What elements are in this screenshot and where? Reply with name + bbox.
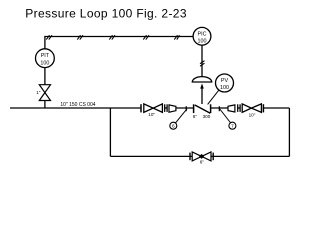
flange pair left bbox=[165, 104, 167, 112]
svg-text:10" 150 CS 004: 10" 150 CS 004 bbox=[60, 102, 95, 108]
instrument PV 100 bbox=[216, 74, 234, 92]
svg-text:PIC: PIC bbox=[198, 31, 207, 37]
pipe spool control valve to expander bbox=[211, 107, 228, 109]
wire pneumatic signal PIT to PIC bbox=[45, 37, 194, 49]
svg-text:6": 6" bbox=[193, 114, 198, 119]
svg-text:Pressure Loop 100 Fig. 2-23: Pressure Loop 100 Fig. 2-23 bbox=[25, 6, 187, 20]
svg-text:PIT: PIT bbox=[41, 53, 50, 59]
pipe spool reducer to control valve bbox=[176, 107, 194, 109]
leader PV to valve bbox=[208, 90, 219, 104]
svg-text:300: 300 bbox=[203, 114, 211, 119]
pipe main line downstream bbox=[263, 107, 289, 109]
instrument PIT 100 bbox=[36, 49, 55, 68]
root valve 1in (vertical gate valve) bbox=[39, 85, 50, 101]
block valve left 10in bbox=[141, 104, 162, 113]
svg-text:7: 7 bbox=[231, 124, 234, 130]
signal slash mark 2 bbox=[77, 35, 83, 39]
svg-text:100: 100 bbox=[220, 85, 229, 91]
pipe bypass bottom line bbox=[110, 155, 289, 157]
block valve right 10in bbox=[242, 104, 263, 113]
flange tick right bbox=[218, 106, 220, 111]
wire PIT to root valve bbox=[44, 68, 46, 85]
flange tick left bbox=[185, 106, 187, 111]
signal slash mark on stem bbox=[200, 61, 205, 66]
note circle 7 bbox=[229, 122, 236, 129]
svg-text:1": 1" bbox=[36, 90, 41, 95]
svg-text:100: 100 bbox=[198, 39, 207, 45]
svg-text:10": 10" bbox=[249, 112, 256, 117]
wire bypass branch down bbox=[109, 108, 111, 156]
note circle 6 bbox=[170, 122, 177, 129]
leader to note 7 bbox=[220, 109, 231, 123]
reducer left (10x6 concentric) bbox=[169, 105, 176, 112]
signal slash mark 1 bbox=[46, 35, 52, 39]
signal slash mark 3 bbox=[109, 35, 115, 39]
pipe main line upstream bbox=[10, 107, 141, 109]
instrument PIC 100 bbox=[193, 27, 211, 45]
wire root valve to pipe bbox=[44, 101, 46, 109]
leader to note 6 bbox=[176, 109, 188, 123]
control valve PV body (butterfly) bbox=[194, 104, 211, 113]
svg-text:100: 100 bbox=[40, 60, 49, 66]
wire signal PIC to actuator bbox=[201, 45, 203, 77]
svg-text:10": 10" bbox=[148, 112, 155, 117]
pipe right riser bbox=[288, 108, 290, 156]
bypass valve 6in bbox=[190, 152, 213, 161]
actuator stem with up arrow bbox=[201, 88, 203, 104]
svg-text:6": 6" bbox=[200, 160, 205, 165]
expander right (6x10 concentric) bbox=[228, 105, 235, 112]
signal slash mark 4 bbox=[143, 35, 149, 39]
svg-text:PV: PV bbox=[221, 78, 229, 84]
svg-text:6: 6 bbox=[172, 124, 175, 130]
signal slash mark 5 bbox=[174, 35, 179, 39]
flange pair right bbox=[238, 104, 240, 112]
actuator diaphragm dome bbox=[192, 77, 211, 82]
